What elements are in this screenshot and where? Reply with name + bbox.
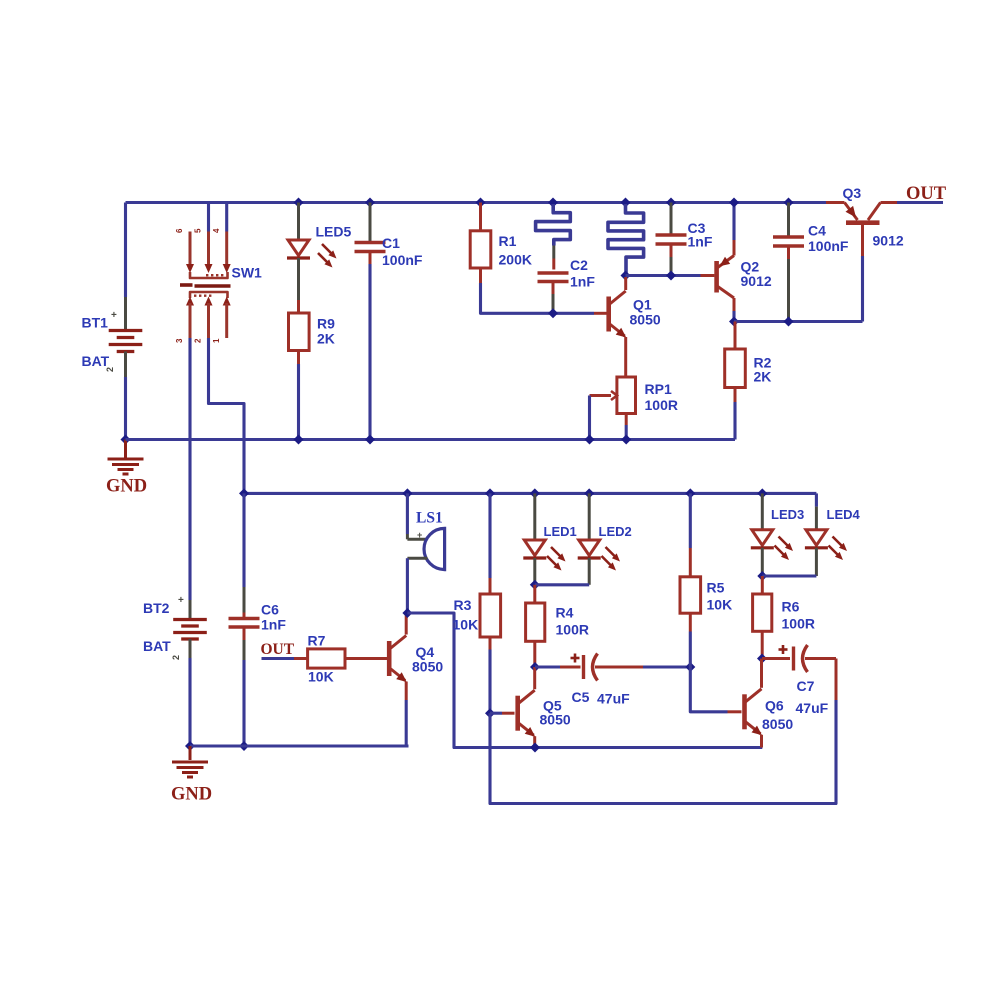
wire LED5 anode lead <box>297 203 300 241</box>
svg-text:2: 2 <box>171 655 181 660</box>
wire LED4 to LED3 junction <box>762 574 816 577</box>
svg-text:LED2: LED2 <box>599 524 632 539</box>
wire RP1 wiper to ground rail <box>588 396 591 440</box>
wire RP1 bottom to ground rail <box>625 414 628 426</box>
junction R9 / ground rail <box>294 435 304 445</box>
resistor R5 <box>680 577 701 613</box>
speaker LS1 <box>424 528 445 569</box>
C7 polarity + <box>779 648 788 651</box>
wire C3 upper lead <box>670 203 673 236</box>
junction stage-2 rail / LED1 <box>530 488 540 498</box>
junction R4 / Q5 collector / C5 <box>530 662 540 672</box>
svg-text:R7: R7 <box>308 633 326 649</box>
svg-text:C6: C6 <box>261 602 279 618</box>
svg-text:1nF: 1nF <box>570 274 595 290</box>
junction top rail / C1 <box>365 198 375 208</box>
svg-text:+: + <box>111 310 117 321</box>
junction LED1 / LED2 / R4 <box>530 580 540 590</box>
wire stage-2 supply rail <box>244 492 816 495</box>
svg-text:LED5: LED5 <box>316 224 352 240</box>
svg-text:100nF: 100nF <box>808 238 849 254</box>
svg-text:BAT: BAT <box>143 638 171 654</box>
svg-text:BT1: BT1 <box>82 315 109 331</box>
LED4 light arrows <box>833 537 844 548</box>
svg-text:Q3: Q3 <box>843 185 862 201</box>
wire coil1 to C2 <box>552 246 555 259</box>
LED5 light arrows <box>322 244 333 255</box>
junction stage-2 rail / LS1 <box>402 488 412 498</box>
wire C7 left lead <box>762 657 790 660</box>
resistor R6 <box>761 576 764 594</box>
wire R4 bottom to Q5 collector <box>533 641 536 667</box>
wire stage-2 rail corner to LED4 <box>815 493 818 506</box>
LED LED1 <box>524 540 545 556</box>
junction C1 / ground rail <box>365 435 375 445</box>
junction C3 / Q2 base line <box>666 271 676 281</box>
wire Q3 collector to OUT <box>897 201 943 204</box>
junction RP1 wiper / ground rail <box>585 435 595 445</box>
wire BT2 upper lead <box>188 594 191 600</box>
wire LED2 anode lead <box>588 493 591 540</box>
svg-text:LED4: LED4 <box>827 507 861 522</box>
wire top supply rail <box>126 201 827 204</box>
wire R1 bottom to Q1 base node <box>479 268 482 283</box>
wire R5 lower lead <box>689 613 692 631</box>
svg-text:100nF: 100nF <box>382 252 423 268</box>
LED LED2 <box>579 540 600 556</box>
LED2 light arrows <box>606 547 617 558</box>
capacitor C7 (polarized) <box>792 647 795 671</box>
wire R1 upper lead <box>479 203 482 231</box>
transistor Q5 <box>515 696 520 731</box>
svg-text:C7: C7 <box>797 678 815 694</box>
svg-text:2K: 2K <box>754 369 772 385</box>
capacitor C2 <box>538 271 569 274</box>
wire LED3 anode lead <box>761 493 764 529</box>
junction top rail / R1 <box>476 198 486 208</box>
wire C2 to Q1 base node <box>552 282 555 295</box>
svg-text:6: 6 <box>175 228 184 233</box>
junction stage-2 rail / C6 branch <box>239 488 249 498</box>
wire R3 upper lead <box>488 493 491 578</box>
svg-text:OUT: OUT <box>261 641 295 658</box>
wire Q2 base line <box>626 274 701 277</box>
wire BT2 lower lead <box>189 639 192 658</box>
wire cross-couple Q5 base to C7 <box>490 700 836 804</box>
svg-text:Q6: Q6 <box>765 698 784 714</box>
svg-text:9012: 9012 <box>873 233 904 249</box>
switch SW1 <box>189 232 192 266</box>
capacitor C5 (polarized) <box>582 655 585 679</box>
svg-text:100R: 100R <box>782 616 815 632</box>
wire Q4 collector node to multivibrator emitters <box>407 613 762 748</box>
svg-text:1nF: 1nF <box>261 617 286 633</box>
wire LED1 anode lead <box>533 493 536 540</box>
wire C6 upper lead <box>242 493 245 587</box>
junction Q5 emitter / emitter rail <box>530 743 540 753</box>
LED1 light arrows <box>551 547 562 558</box>
svg-text:3: 3 <box>175 338 184 343</box>
svg-text:8050: 8050 <box>762 716 793 732</box>
junction Q2 collector / R2 / C4 line <box>729 317 739 327</box>
transistor Q2 <box>714 261 719 293</box>
resistor R1 <box>470 231 491 268</box>
transistor Q6 <box>742 694 747 729</box>
svg-text:2: 2 <box>194 338 203 343</box>
svg-text:LED3: LED3 <box>771 507 804 522</box>
coil L1 (serpentine) <box>536 204 571 246</box>
svg-text:GND: GND <box>106 477 147 497</box>
svg-text:BT2: BT2 <box>143 600 170 616</box>
svg-text:2K: 2K <box>317 331 335 347</box>
LED LED5 <box>288 240 309 256</box>
svg-text:R9: R9 <box>317 316 335 332</box>
capacitor C4 <box>773 235 804 238</box>
junction BT1 / ground rail <box>121 435 131 445</box>
capacitor C1 <box>355 241 386 244</box>
LED3 light arrows <box>779 537 790 548</box>
wire LED4 anode lead <box>815 507 818 530</box>
svg-text:100R: 100R <box>645 397 678 413</box>
junction RP1 / ground rail <box>621 435 631 445</box>
svg-text:R4: R4 <box>556 605 574 621</box>
wire Q2 collector node line <box>734 320 863 323</box>
wire C7 right lead <box>805 657 836 660</box>
LED LED3 <box>752 530 773 546</box>
wire SW1 pin5 to rail <box>207 203 210 232</box>
wire LED4 cathode lead <box>815 548 818 576</box>
svg-text:47uF: 47uF <box>597 691 630 707</box>
svg-text:8050: 8050 <box>540 712 571 728</box>
ground GND symbol (stage 1) <box>124 440 127 458</box>
transistor Q3 <box>826 201 845 204</box>
svg-text:GND: GND <box>171 785 212 805</box>
ground GND symbol (stage 2) <box>189 746 192 760</box>
svg-text:Q1: Q1 <box>633 297 652 313</box>
svg-text:RP1: RP1 <box>645 381 672 397</box>
svg-text:R1: R1 <box>499 233 517 249</box>
junction C6 / stage-2 ground rail <box>239 741 249 751</box>
wire C1 upper lead <box>369 203 372 243</box>
svg-text:LS1: LS1 <box>416 510 443 527</box>
svg-text:200K: 200K <box>499 252 532 268</box>
junction LS1 / Q4 collector <box>402 608 412 618</box>
svg-text:10K: 10K <box>453 617 479 633</box>
junction C5 / R5 / Q6 base <box>685 662 695 672</box>
wire OUT stub to R7 <box>262 657 295 660</box>
junction stage-2 rail / R3 <box>485 488 495 498</box>
svg-text:10K: 10K <box>308 669 334 685</box>
junction stage-2 rail / R5 <box>685 488 695 498</box>
svg-text:+: + <box>417 530 422 540</box>
wire Q3 base down to C4 line <box>861 256 864 322</box>
svg-text:R6: R6 <box>782 599 800 615</box>
svg-text:8050: 8050 <box>630 312 661 328</box>
wire R6 bottom to Q6 collector <box>761 631 764 658</box>
C5 polarity + <box>571 657 580 660</box>
wire LS1 lower lead <box>407 557 427 560</box>
junction top rail / Q2 emitter <box>729 198 739 208</box>
svg-text:47uF: 47uF <box>796 700 829 716</box>
resistor R7 <box>308 649 345 668</box>
junction top rail / C3 <box>666 198 676 208</box>
svg-text:5: 5 <box>194 228 203 233</box>
wire BT1 branch upper <box>124 203 127 298</box>
wire LS1 upper lead <box>406 493 409 534</box>
svg-text:10K: 10K <box>707 597 733 613</box>
wire SW1 pin3 down to BT2 <box>188 338 191 594</box>
potentiometer RP1 <box>617 377 636 414</box>
resistor R9 <box>289 313 310 351</box>
svg-text:OUT: OUT <box>906 184 947 204</box>
wire R3 bottom to Q5 base <box>489 637 492 650</box>
RP1 wiper arrow <box>590 394 612 397</box>
svg-text:R5: R5 <box>707 580 725 596</box>
svg-text:SW1: SW1 <box>232 265 263 281</box>
wire SW1 pin2 step down to stage-2 rail <box>209 338 245 493</box>
svg-text:C4: C4 <box>808 223 826 239</box>
wire LED2 cathode lead <box>588 558 591 585</box>
wire C3 lower lead <box>670 244 673 257</box>
svg-text:C5: C5 <box>572 689 590 705</box>
svg-text:100R: 100R <box>556 622 589 638</box>
junction stage-2 rail / LED3 <box>757 488 767 498</box>
wire C5 right lead to R5 bottom <box>595 666 643 669</box>
transistor Q4 <box>387 641 392 676</box>
svg-text:4: 4 <box>212 228 221 233</box>
battery BT1 <box>109 329 143 332</box>
wire C4 lower lead <box>787 246 790 259</box>
junction R6 / Q6 collector / C7 <box>757 654 767 664</box>
battery BT2 <box>173 618 207 621</box>
junction C4 / Q2 collector line <box>784 317 794 327</box>
wire R5 upper lead <box>689 493 692 548</box>
junction coil2 / Q1 collector / Q2 base line <box>621 271 631 281</box>
wire SW1 pin4 to rail <box>225 203 228 232</box>
svg-text:1nF: 1nF <box>688 234 713 250</box>
wire LED5 cathode to R9 <box>297 258 300 300</box>
wire stage-1 ground rail <box>126 438 736 441</box>
svg-text:C2: C2 <box>570 257 588 273</box>
wire C4 upper lead <box>787 203 790 238</box>
junction R3 / Q5 base / cross-couple <box>485 708 495 718</box>
junction LED3 / LED4 / R6 <box>757 571 767 581</box>
svg-text:LED1: LED1 <box>544 524 577 539</box>
wire LED3 cathode lead <box>761 548 764 576</box>
junction stage-2 rail / LED2 <box>584 488 594 498</box>
resistor R2 <box>734 322 737 350</box>
wire LED1 cathode lead <box>533 558 536 585</box>
junction top rail / coil 2 <box>621 198 631 208</box>
svg-text:BAT: BAT <box>82 353 110 369</box>
svg-text:+: + <box>178 595 184 606</box>
wire C1 lower lead to ground rail <box>369 252 372 265</box>
transistor Q1 <box>606 297 611 332</box>
wire BT1 branch lower <box>124 352 127 378</box>
capacitor C3 <box>656 233 687 236</box>
svg-text:R3: R3 <box>454 597 472 613</box>
wire Q5 base lead <box>490 712 502 715</box>
svg-text:1: 1 <box>212 338 221 343</box>
junction top rail / coil 1 <box>548 198 558 208</box>
wire stage-2 ground rail <box>190 744 409 747</box>
junction top rail / C4 <box>784 198 794 208</box>
junction C2 / Q1 base line <box>548 308 558 318</box>
resistor R4 <box>533 585 536 603</box>
wire R2 bottom to ground rail <box>734 388 737 403</box>
wire R9 to ground rail <box>297 351 300 365</box>
resistor R3 <box>480 594 501 637</box>
svg-text:8050: 8050 <box>412 659 443 675</box>
junction top rail / LED5 <box>294 198 304 208</box>
junction BT2 / stage-2 ground rail <box>185 741 195 751</box>
wire C5 node to Q6 base <box>690 667 727 712</box>
wire C5 left lead <box>535 665 560 668</box>
wire LED2 to LED1 junction <box>535 583 589 586</box>
wire C6 lower lead to stage-2 ground <box>243 627 246 640</box>
capacitor C6 <box>229 617 260 620</box>
svg-text:C1: C1 <box>382 235 400 251</box>
wire R7 to Q4 base <box>345 657 387 660</box>
svg-text:9012: 9012 <box>741 273 772 289</box>
LED LED4 <box>806 530 827 546</box>
coil L2 (serpentine) <box>608 204 644 276</box>
